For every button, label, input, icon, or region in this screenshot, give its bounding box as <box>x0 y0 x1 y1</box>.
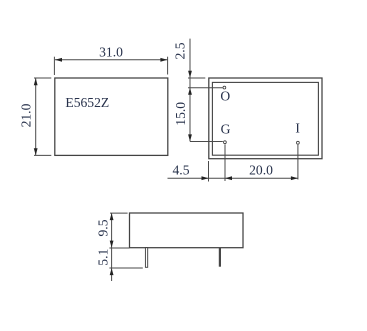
svg-text:15.0: 15.0 <box>173 102 188 126</box>
ext line below pin G <box>224 144 226 181</box>
ext line box2 top level <box>188 77 205 79</box>
dim 21.0 line <box>35 78 37 155</box>
dim 31.0 extension line right <box>167 57 169 75</box>
dim 9.5 arrow top <box>110 213 114 220</box>
dim 31.0 arrow right <box>160 58 167 62</box>
pin G <box>224 141 227 144</box>
dim 21.0 arrow top <box>34 78 38 85</box>
dim 5.1 arrow (up from below) <box>110 268 114 275</box>
svg-text:20.0: 20.0 <box>249 162 273 177</box>
ext line pin O level <box>188 87 223 89</box>
svg-text:G: G <box>221 121 231 136</box>
svg-text:21.0: 21.0 <box>19 103 34 127</box>
dim 4.5 arrow (right to box edge) <box>202 176 209 180</box>
pin O <box>223 86 226 89</box>
left pin (side view) <box>145 248 147 268</box>
svg-text:31.0: 31.0 <box>99 44 123 59</box>
svg-text:2.5: 2.5 <box>173 42 188 59</box>
ext line body bottom level <box>109 247 129 249</box>
dim 31.0 arrow left <box>55 58 62 62</box>
ext line below pin I <box>297 145 299 180</box>
module body outline (side view) <box>130 213 244 248</box>
dim 9.5 arrow bottom <box>110 241 114 248</box>
dim 20.0 arrow left (at pin G ext) <box>225 176 232 180</box>
dim 21.0 extension line top <box>34 77 51 79</box>
dim 9.5/5.1 vertical line <box>111 213 113 281</box>
svg-text:9.5: 9.5 <box>95 219 110 236</box>
dim 21.0 extension line bottom <box>34 154 51 156</box>
svg-text:O: O <box>220 89 230 104</box>
dim 2.5/15.0 vertical line <box>189 39 191 142</box>
dim 2.5 arrow (down to box top) <box>188 71 192 78</box>
dim 4.5/20.0 line <box>168 177 298 179</box>
module body outline (front view) <box>55 78 168 155</box>
svg-text:4.5: 4.5 <box>173 162 190 177</box>
module outer outline (top view) <box>209 78 322 159</box>
svg-text:E5652Z: E5652Z <box>65 95 109 110</box>
pin I <box>297 141 300 144</box>
module inner outline (top view) <box>212 82 318 155</box>
right pin (side view) <box>219 248 221 267</box>
svg-text:5.1: 5.1 <box>95 249 110 266</box>
ext line below box2 left edge <box>208 161 210 182</box>
ext line pin bottom level <box>109 267 142 269</box>
ext line body top level <box>110 212 128 214</box>
dim 31.0 extension line left <box>53 57 55 75</box>
svg-text:I: I <box>295 121 300 136</box>
dim 2.5/15.0 shared arrow (up to pin O level) <box>188 88 192 95</box>
ext line pin G level <box>190 141 223 143</box>
dim 20.0 arrow right (at pin I ext) <box>291 176 298 180</box>
dim 31.0 line <box>55 59 167 61</box>
dim 15.0 arrow (down to pin G level) <box>188 134 192 141</box>
dim 21.0 arrow bottom <box>34 148 38 155</box>
